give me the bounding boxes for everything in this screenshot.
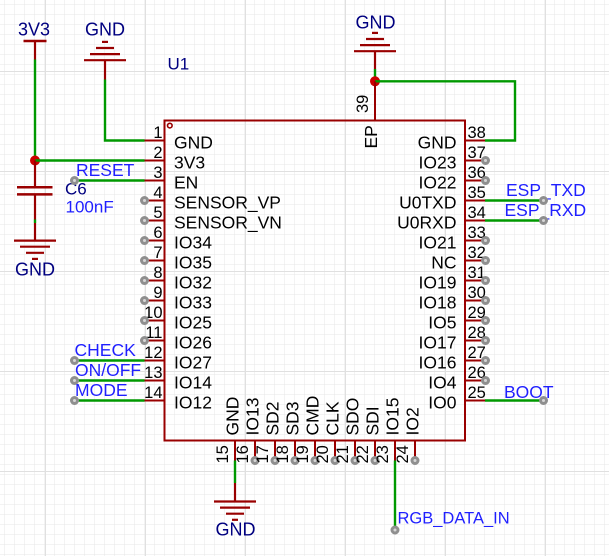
svg-text:U0TXD: U0TXD [399, 193, 456, 213]
pin 38 (GND) right [418, 124, 486, 153]
pin 9 (IO33) left [142, 284, 212, 313]
svg-text:IO26: IO26 [174, 333, 212, 353]
pin 19 (CMD) bottom [294, 396, 323, 464]
svg-text:SENSOR_VN: SENSOR_VN [174, 213, 282, 234]
svg-text:U0RXD: U0RXD [397, 213, 456, 233]
wire ON/OFF to pin 13 [72, 378, 145, 384]
svg-text:U1: U1 [168, 54, 190, 73]
net label ESP_RXD [505, 200, 587, 221]
wire MODE to pin 14 [72, 398, 145, 404]
svg-text:IO15: IO15 [383, 398, 403, 436]
pin 11 (IO26) left [142, 324, 212, 353]
svg-text:3V3: 3V3 [174, 153, 205, 173]
svg-text:25: 25 [468, 384, 486, 402]
svg-text:17: 17 [254, 445, 272, 463]
wire GND to pin 1 [105, 80, 145, 141]
svg-text:12: 12 [144, 344, 162, 362]
svg-text:SENSOR_VP: SENSOR_VP [174, 193, 281, 214]
pin 5 (SENSOR_VN) left [142, 204, 282, 234]
svg-text:23: 23 [374, 445, 392, 463]
pin 22 (SDI) bottom [354, 406, 383, 463]
svg-text:38: 38 [468, 124, 486, 142]
svg-text:IO0: IO0 [428, 393, 456, 413]
value 100nF [66, 198, 114, 217]
svg-text:IO32: IO32 [174, 273, 212, 293]
wire C6 to GND [34, 220, 36, 224]
svg-text:IO13: IO13 [243, 398, 263, 436]
ground GND (bottom, pin 15) [214, 483, 256, 540]
svg-text:GND: GND [216, 520, 256, 540]
svg-text:14: 14 [144, 384, 162, 402]
pin 6 (IO34) left [142, 224, 213, 253]
capacitor C6 [17, 161, 53, 220]
svg-text:IO12: IO12 [174, 393, 212, 413]
svg-text:GND: GND [85, 20, 125, 40]
svg-text:CLK: CLK [323, 401, 343, 435]
power flag 3V3 [18, 20, 50, 60]
wire ESP_RXD to pin 34 [485, 218, 547, 224]
svg-text:IO23: IO23 [419, 153, 457, 173]
pin 35 (U0TXD) right [399, 184, 486, 213]
net label RGB_DATA_IN [398, 510, 510, 528]
wire BOOT to pin 25 [485, 398, 547, 404]
svg-text:5: 5 [153, 204, 162, 222]
pin 37 (IO23) right [419, 144, 489, 173]
svg-text:GND: GND [15, 260, 55, 280]
pin 20 (CLK) bottom [314, 401, 343, 463]
svg-text:IO18: IO18 [419, 293, 457, 313]
IC U1 body [165, 121, 466, 441]
svg-text:19: 19 [294, 445, 312, 463]
svg-text:GND: GND [356, 13, 396, 33]
svg-text:RGB_DATA_IN: RGB_DATA_IN [398, 510, 510, 528]
svg-text:ON/OFF: ON/OFF [75, 360, 141, 380]
svg-text:EN: EN [174, 173, 198, 193]
pin 29 (IO5) right [428, 304, 488, 333]
svg-text:22: 22 [354, 445, 372, 463]
wire RGB_DATA_IN to pin 23 [392, 461, 398, 534]
svg-text:IO22: IO22 [419, 173, 457, 193]
svg-text:SD2: SD2 [263, 401, 283, 435]
svg-text:8: 8 [153, 264, 162, 282]
svg-text:100nF: 100nF [66, 198, 114, 217]
pin 14 (IO12) left [144, 384, 212, 413]
svg-text:NC: NC [431, 253, 456, 273]
pin 3 (EN) left [145, 164, 199, 193]
net label CHECK [75, 340, 137, 360]
ground GND (top, to EP pin 39) [354, 13, 396, 70]
svg-text:IO14: IO14 [174, 373, 212, 393]
svg-text:EP: EP [361, 125, 381, 148]
junction node EP/GND/pin38 [370, 76, 380, 86]
net label RESET [76, 160, 135, 180]
svg-text:IO21: IO21 [419, 233, 457, 253]
svg-text:IO33: IO33 [174, 293, 212, 313]
pin 18 (SD3) bottom [274, 401, 303, 463]
refdes U1 [168, 54, 190, 73]
svg-text:1: 1 [153, 124, 162, 142]
svg-text:39: 39 [354, 95, 372, 113]
pin 12 (IO27) left [144, 344, 212, 373]
wire ESP_TXD to pin 35 [485, 198, 547, 204]
pin 7 (IO35) left [142, 244, 212, 273]
pin 24 (IO2) bottom [394, 407, 423, 463]
svg-text:SD3: SD3 [283, 401, 303, 435]
pin 30 (IO18) right [419, 284, 489, 313]
pin 25 (IO0) right [428, 384, 486, 413]
svg-text:9: 9 [153, 284, 162, 302]
net label ON/OFF [75, 360, 141, 380]
pin 13 (IO14) left [144, 364, 212, 393]
net label MODE [75, 380, 128, 400]
junction node 3V3/C6/pin2 [30, 156, 40, 166]
pin 33 (IO21) right [419, 224, 489, 253]
net label BOOT [504, 382, 554, 402]
svg-text:IO25: IO25 [174, 313, 212, 333]
wire CHECK to pin 12 [72, 358, 145, 364]
pin 34 (U0RXD) right [397, 204, 486, 233]
svg-text:GND: GND [223, 397, 243, 436]
svg-text:IO5: IO5 [428, 313, 456, 333]
svg-text:6: 6 [153, 224, 162, 242]
pin 21 (SDO) bottom [334, 398, 363, 464]
refdes C6 [65, 180, 87, 199]
net label ESP_TXD [506, 180, 586, 201]
pin 4 (SENSOR_VP) left [142, 184, 281, 214]
svg-text:SDI: SDI [363, 406, 383, 435]
svg-text:2: 2 [153, 144, 162, 162]
svg-text:4: 4 [153, 184, 162, 202]
svg-text:18: 18 [274, 445, 292, 463]
svg-text:CMD: CMD [303, 396, 323, 436]
pin 31 (IO19) right [419, 264, 489, 293]
svg-text:GND: GND [418, 133, 457, 153]
svg-text:21: 21 [334, 445, 352, 463]
ground GND (below C6) [14, 223, 56, 280]
svg-text:IO19: IO19 [419, 273, 457, 293]
svg-text:IO17: IO17 [419, 333, 457, 353]
svg-text:7: 7 [153, 244, 162, 262]
wire RESET to pin 3 [72, 178, 145, 184]
svg-text:IO4: IO4 [428, 373, 456, 393]
svg-text:IO2: IO2 [403, 407, 423, 435]
wire pin 15 to GND [234, 461, 236, 484]
svg-text:34: 34 [468, 204, 486, 222]
wire junction to pin 2 [35, 159, 145, 161]
pin 8 (IO32) left [142, 264, 212, 293]
pin 36 (IO22) right [419, 164, 489, 193]
svg-text:IO16: IO16 [419, 353, 457, 373]
wire 3V3 down to junction [34, 60, 36, 161]
pin 23 (IO15) bottom [374, 398, 403, 464]
svg-text:CHECK: CHECK [75, 340, 137, 360]
svg-text:20: 20 [314, 445, 332, 463]
svg-text:35: 35 [468, 184, 486, 202]
ground GND (top left, to pin 1) [84, 20, 126, 80]
svg-text:IO35: IO35 [174, 253, 212, 273]
wire GND down to EP junction [374, 69, 376, 81]
svg-text:16: 16 [234, 445, 252, 463]
svg-text:3: 3 [153, 164, 162, 182]
pin 27 (IO16) right [419, 344, 489, 373]
svg-text:IO27: IO27 [174, 353, 212, 373]
pin 2 (3V3) left [145, 144, 206, 173]
pin 26 (IO4) right [428, 364, 488, 393]
svg-text:RESET: RESET [76, 160, 135, 180]
svg-text:13: 13 [144, 364, 162, 382]
pin 39 (EP) top [354, 81, 381, 148]
svg-text:IO34: IO34 [174, 233, 212, 253]
pin 10 (IO25) left [142, 304, 212, 333]
svg-text:3V3: 3V3 [18, 20, 50, 40]
pin 15 (GND) bottom [214, 397, 243, 464]
pin 17 (SD2) bottom [254, 401, 283, 463]
svg-text:MODE: MODE [75, 380, 128, 400]
svg-text:SDO: SDO [343, 398, 363, 436]
pin 28 (IO17) right [419, 324, 489, 353]
svg-text:GND: GND [174, 133, 213, 153]
svg-text:15: 15 [214, 445, 232, 463]
pin 16 (IO13) bottom [234, 398, 263, 464]
pin 32 (NC) right [431, 244, 488, 273]
pin 1 (GND) left [145, 124, 213, 153]
svg-text:24: 24 [394, 445, 412, 463]
wire junction to pin 38 [375, 81, 515, 140]
